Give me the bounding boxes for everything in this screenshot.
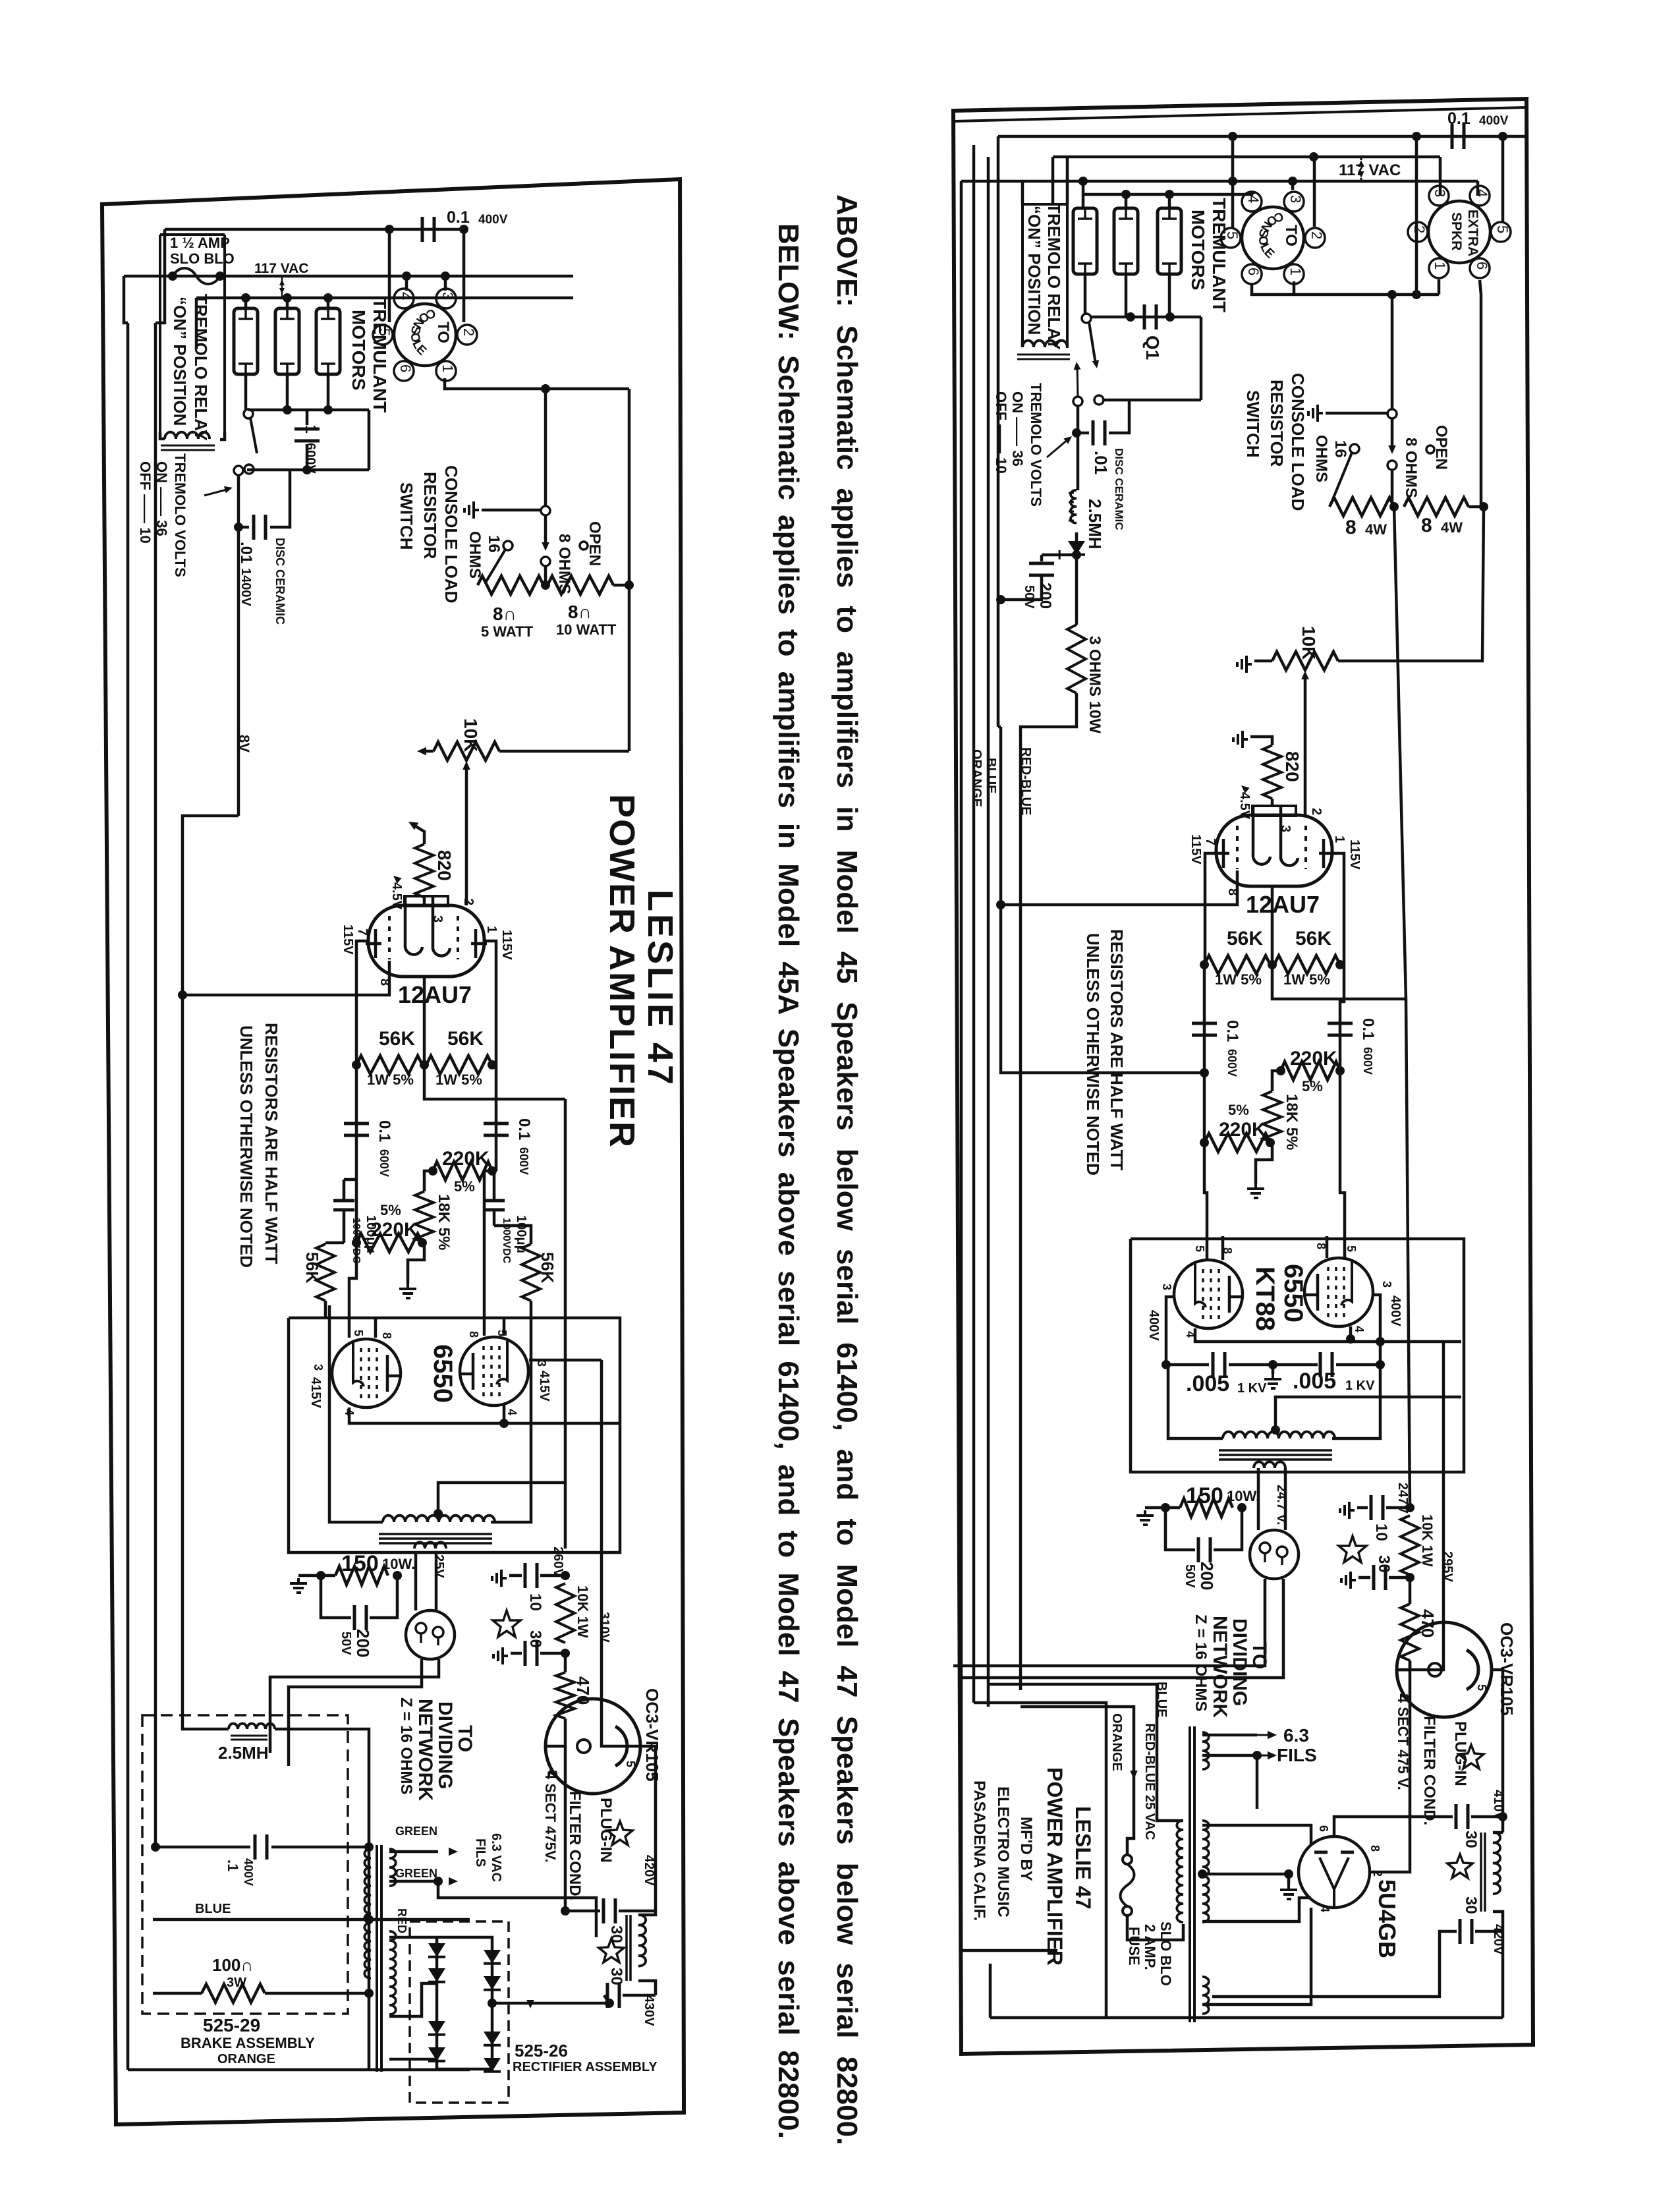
svg-text:8∩: 8∩	[493, 604, 517, 624]
junction	[605, 1999, 614, 2008]
svg-text:0.1: 0.1	[447, 208, 470, 227]
svg-text:56K: 56K	[302, 1252, 322, 1284]
wire	[511, 1652, 522, 1655]
svg-text:415V: 415V	[537, 1371, 551, 1402]
junction	[352, 1060, 361, 1069]
wire pin7 to 56K	[1205, 853, 1214, 965]
wire	[1409, 1578, 1412, 1604]
junction	[1198, 1869, 1207, 1879]
switch arm	[1331, 453, 1352, 504]
junction	[1126, 312, 1135, 322]
wire	[1272, 965, 1406, 999]
wire	[564, 1746, 567, 1911]
svg-text:7: 7	[355, 928, 370, 936]
motor M2	[1114, 208, 1138, 274]
arrowhead	[1130, 1771, 1138, 1779]
resistor 56K	[426, 1056, 492, 1074]
junction	[1162, 1360, 1171, 1369]
svg-text:.005: .005	[1293, 1369, 1336, 1394]
junction	[393, 1571, 402, 1580]
junction	[364, 1842, 374, 1852]
svg-text:TO: TO	[434, 322, 452, 343]
svg-text:ABOVE: Schematic applies to am: ABOVE: Schematic applies to amplifiers i…	[831, 194, 863, 2145]
svg-text:3: 3	[1380, 1281, 1393, 1288]
wire	[1340, 965, 1344, 1071]
switch arm	[250, 418, 257, 453]
svg-text:OHMS: OHMS	[1312, 435, 1330, 482]
star symbol	[1339, 1536, 1366, 1562]
switch arm	[486, 550, 505, 583]
svg-text:600V: 600V	[378, 1149, 391, 1177]
junction	[323, 405, 333, 414]
junction	[1479, 502, 1488, 511]
coil core	[1069, 493, 1074, 521]
svg-text:RED-BLUE: RED-BLUE	[1019, 747, 1033, 815]
svg-text:SLO BLO: SLO BLO	[1158, 1921, 1174, 1986]
resistor 470	[556, 1672, 574, 1719]
junction	[1072, 550, 1081, 559]
svg-text:260V: 260V	[551, 1547, 565, 1578]
wire	[1349, 1326, 1353, 1342]
svg-text:LESLIE 47: LESLIE 47	[1071, 1806, 1095, 1910]
junction	[364, 1915, 374, 1924]
wire	[1391, 470, 1394, 507]
resistor 220K	[356, 1234, 422, 1252]
filter choke coil	[1493, 1833, 1500, 1894]
svg-text:525-26: 525-26	[515, 2041, 568, 2061]
diode	[484, 2058, 501, 2072]
wire	[961, 1949, 1057, 1952]
svg-text:RESISTORS ARE HALF WATT: RESISTORS ARE HALF WATT	[1107, 929, 1127, 1171]
svg-text:GREEN: GREEN	[395, 1867, 437, 1880]
switch contact	[1073, 397, 1082, 406]
svg-text:8∩: 8∩	[568, 602, 592, 622]
resistor 56K	[522, 1244, 540, 1301]
svg-text:310V: 310V	[597, 1612, 611, 1643]
svg-text:56K: 56K	[538, 1252, 557, 1284]
capacitor .005 1KV	[1213, 1352, 1225, 1377]
wire	[306, 410, 309, 425]
arrowhead	[449, 1877, 458, 1886]
svg-text:6: 6	[1317, 1825, 1330, 1832]
arrowhead	[1239, 783, 1250, 793]
wire	[1386, 1506, 1410, 1510]
svg-text:1: 1	[439, 364, 456, 372]
filter condenser OC3-VR105	[546, 1699, 640, 1794]
arrowhead	[1268, 1751, 1277, 1760]
wire	[1358, 1576, 1370, 1579]
junction	[1498, 132, 1507, 141]
junction	[996, 900, 1005, 909]
wire	[1066, 157, 1069, 204]
plug to dividing network	[406, 1610, 455, 1659]
svg-text:3: 3	[1432, 189, 1448, 197]
wire	[1214, 1508, 1242, 1550]
junction	[1200, 1138, 1209, 1147]
switch contact	[1387, 461, 1397, 470]
wire bottom bus	[990, 2016, 1503, 2020]
junction	[1228, 132, 1237, 141]
capacitor 100uu 1000VDC	[333, 1201, 354, 1210]
resistor 220K	[1281, 1062, 1340, 1080]
wire	[275, 1729, 369, 1847]
wire center tap	[1275, 1397, 1461, 1430]
svg-text:50V: 50V	[1022, 585, 1036, 609]
wire	[509, 1574, 522, 1578]
svg-text:2: 2	[461, 898, 476, 905]
filter choke core	[627, 1915, 630, 1981]
arrowhead	[391, 873, 402, 884]
svg-text:RED-BLUE 25 VAC: RED-BLUE 25 VAC	[1142, 1723, 1157, 1840]
junction	[1405, 1573, 1414, 1582]
ground	[464, 501, 479, 519]
wire pin1 to 56K	[1334, 853, 1344, 965]
wire	[482, 509, 541, 512]
svg-text:RESISTORS ARE HALF WATT: RESISTORS ARE HALF WATT	[262, 1023, 281, 1265]
wire	[565, 1910, 600, 1913]
wire	[623, 1994, 656, 1997]
svg-text:0.1: 0.1	[376, 1120, 393, 1142]
junction	[241, 293, 250, 302]
wire 295V drop	[1397, 1342, 1443, 1670]
arrowhead	[1301, 671, 1309, 679]
wire BLUE	[153, 1918, 470, 1921]
wire	[1391, 418, 1394, 450]
tube 12AU7	[1214, 806, 1335, 886]
svg-text:220K: 220K	[442, 1148, 490, 1170]
wire	[1001, 727, 1204, 1073]
svg-text:5: 5	[1475, 1684, 1488, 1691]
svg-text:.01: .01	[1091, 451, 1111, 474]
arrowhead	[1092, 360, 1101, 369]
wire	[1501, 1817, 1505, 1833]
wire	[437, 2068, 492, 2071]
svg-text:2.5MH: 2.5MH	[218, 1743, 269, 1763]
wire	[244, 298, 248, 308]
junction	[1121, 190, 1131, 199]
relay box TREMOLO RELAY	[1022, 204, 1067, 348]
svg-text:ON —— 36: ON —— 36	[1009, 391, 1026, 467]
wire grid feed	[1340, 1071, 1345, 1258]
wire cap lead	[1077, 432, 1089, 435]
wire pin4 bus	[349, 1407, 620, 1423]
svg-text:400V: 400V	[1146, 1310, 1161, 1341]
junction	[1268, 960, 1277, 969]
junction	[561, 1906, 570, 1916]
resistor 18K 5%	[1263, 1091, 1281, 1143]
svg-text:200: 200	[1036, 583, 1054, 609]
junction	[459, 225, 468, 234]
svg-text:5: 5	[376, 328, 393, 336]
ground	[1280, 1885, 1297, 1899]
coil 2.5MH	[229, 1724, 275, 1729]
svg-text:8: 8	[1421, 515, 1432, 536]
resistor 10K pot	[434, 742, 499, 760]
svg-text:3: 3	[1160, 1284, 1173, 1290]
svg-text:0.1: 0.1	[1447, 109, 1470, 128]
capacitor 200 50V	[1029, 563, 1054, 575]
filter choke core	[1481, 1833, 1485, 1912]
resistor 3 OHMS 10W	[1067, 625, 1086, 693]
svg-text:BRAKE ASSEMBLY: BRAKE ASSEMBLY	[181, 2035, 315, 2051]
junction	[1376, 1337, 1385, 1346]
star symbol	[493, 1610, 520, 1637]
svg-text:6550: 6550	[428, 1344, 457, 1403]
wire contact stub	[1077, 364, 1078, 397]
wire	[1202, 1734, 1257, 1737]
wire RED-BLUE run	[1021, 1707, 1134, 1855]
wire	[544, 515, 547, 547]
wire	[1475, 1930, 1503, 1933]
star symbol	[1459, 1745, 1484, 1769]
wire	[604, 1995, 609, 2003]
junction	[488, 1060, 497, 1069]
tube 6550 left	[1174, 1260, 1244, 1328]
svg-text:SWITCH: SWITCH	[1243, 390, 1263, 458]
wire console pin1 out	[1293, 281, 1296, 295]
wire	[640, 1746, 656, 1911]
svg-text:TO: TO	[1248, 1642, 1270, 1669]
svg-text:.01: .01	[237, 542, 255, 563]
motor M3	[1158, 208, 1181, 274]
junction	[1228, 177, 1237, 186]
svg-text:POWER AMPLIFIER: POWER AMPLIFIER	[602, 794, 642, 1149]
wire to console pin5	[388, 229, 391, 322]
arrowhead	[449, 1848, 458, 1856]
svg-text:“ON” POSITION: “ON” POSITION	[1024, 206, 1044, 335]
svg-text:OFF —— 10: OFF —— 10	[137, 461, 154, 544]
wire	[1168, 1365, 1223, 1438]
svg-text:8: 8	[1345, 517, 1357, 538]
svg-text:3: 3	[1287, 195, 1304, 203]
junction	[1346, 1334, 1355, 1344]
svg-text:30: 30	[1462, 1831, 1480, 1848]
wire	[374, 1318, 378, 1338]
junction	[178, 990, 187, 1000]
svg-text:1400V: 1400V	[238, 568, 253, 606]
junction	[1266, 1138, 1275, 1147]
switch pivot	[244, 409, 253, 418]
connector TO CONSOLE	[1221, 192, 1325, 284]
junction	[215, 271, 225, 281]
junction	[1412, 290, 1421, 299]
capacitor 0.1 400V	[1452, 124, 1464, 149]
wire	[544, 566, 547, 585]
wire	[1166, 1363, 1209, 1367]
switch contact	[1094, 395, 1104, 405]
svg-text:4: 4	[1353, 1326, 1366, 1332]
wire	[484, 1171, 492, 1336]
output transformer core	[379, 1534, 492, 1543]
ground	[1237, 656, 1252, 673]
svg-text:UNLESS OTHERWISE NOTED: UNLESS OTHERWISE NOTED	[1083, 933, 1103, 1176]
capacitor .01 disc ceramic	[1093, 420, 1105, 445]
wire	[1304, 737, 1307, 815]
wire	[389, 2058, 437, 2061]
wire	[1326, 412, 1387, 415]
wire	[327, 298, 330, 308]
junction	[1078, 177, 1088, 186]
wire	[1501, 1931, 1505, 2018]
junction	[1387, 290, 1397, 299]
wire	[1221, 1236, 1225, 1260]
svg-text:30: 30	[1375, 1555, 1393, 1573]
coil	[414, 1542, 446, 1549]
power transformer primary	[364, 1849, 371, 1978]
svg-text:DIVIDING: DIVIDING	[434, 1701, 456, 1789]
svg-text:200: 200	[353, 1629, 373, 1657]
wire bus B3	[961, 180, 1478, 183]
star symbol	[599, 1939, 624, 1962]
svg-text:30: 30	[526, 1630, 544, 1648]
svg-text:2 AMP.: 2 AMP.	[1142, 1924, 1158, 1970]
wire	[638, 1911, 656, 1915]
wire	[494, 1226, 531, 1244]
svg-text:10K: 10K	[1299, 626, 1319, 660]
wire ORANGE	[128, 2068, 470, 2072]
svg-text:56K: 56K	[379, 1028, 415, 1050]
power transformer 6.3V winding	[389, 1849, 396, 1886]
wire	[265, 1992, 369, 1995]
svg-text:2: 2	[461, 328, 477, 336]
svg-text:117 VAC: 117 VAC	[254, 261, 309, 276]
wire	[1165, 1508, 1195, 1550]
wire	[529, 1359, 602, 1362]
svg-text:2: 2	[1308, 231, 1325, 239]
wire	[286, 374, 289, 410]
wire	[638, 1981, 656, 1995]
wire	[546, 1719, 565, 1746]
fuse 1.5 AMP SLO BLO	[173, 268, 220, 284]
wire	[1410, 1815, 1453, 1819]
tube 5U4GB	[1299, 1836, 1370, 1908]
svg-text:3: 3	[312, 1364, 325, 1371]
junction	[364, 1989, 374, 1998]
wire	[1336, 1363, 1380, 1367]
wire BLUE run	[988, 1684, 1183, 1821]
svg-text:1W 5%: 1W 5%	[367, 1071, 414, 1088]
resistor 820	[1263, 745, 1281, 799]
dashed box 525-29 BRAKE ASSEMBLY	[142, 1715, 348, 2014]
junction	[323, 293, 333, 302]
resistor 56K	[1274, 955, 1340, 974]
arrowhead	[279, 288, 285, 294]
wire	[438, 1881, 596, 1937]
junction	[1376, 1360, 1385, 1369]
wire	[1202, 1908, 1311, 2004]
wire to console pin4	[405, 276, 408, 291]
wire	[424, 1065, 565, 1099]
resistor 10K 1W	[1401, 1516, 1419, 1575]
star symbol	[1447, 1854, 1472, 1878]
svg-text:TREMOLO RELAY: TREMOLO RELAY	[191, 294, 211, 441]
capacitor Q1	[1144, 304, 1156, 329]
wire to extra-spkr pin4	[1476, 181, 1480, 196]
svg-text:10K 1W: 10K 1W	[574, 1585, 591, 1638]
wire	[344, 1178, 356, 1181]
connector EXTRA SPKR	[1408, 186, 1511, 278]
svg-text:1: 1	[484, 926, 499, 933]
svg-text:5: 5	[1193, 1245, 1206, 1252]
junction	[1237, 1503, 1246, 1512]
wire	[1493, 1831, 1503, 1834]
svg-text:150: 150	[1186, 1483, 1223, 1508]
svg-text:LESLIE 47: LESLIE 47	[640, 890, 680, 1087]
switch contact 16 OHMS	[1350, 444, 1359, 453]
junction	[996, 595, 1005, 604]
svg-text:.005: .005	[1186, 1371, 1229, 1396]
wire	[356, 941, 369, 1065]
svg-text:10: 10	[526, 1593, 544, 1611]
wire	[435, 1552, 438, 1610]
relay coil	[165, 432, 210, 439]
svg-text:10W.: 10W.	[382, 1556, 415, 1572]
diode	[428, 1943, 445, 1957]
svg-text:600V: 600V	[1361, 1047, 1374, 1075]
svg-text:5: 5	[352, 1330, 365, 1336]
switch contact	[244, 465, 254, 474]
relay coil	[1022, 341, 1067, 347]
resistor 18K 5%	[415, 1191, 434, 1243]
svg-text:RECTIFIER ASSEMBLY: RECTIFIER ASSEMBLY	[513, 2060, 658, 2074]
arrowhead	[1268, 1731, 1277, 1740]
wire wiper	[465, 768, 468, 832]
coil	[1254, 1462, 1285, 1468]
svg-text:4: 4	[1245, 195, 1262, 203]
switch terminal	[1387, 409, 1397, 418]
svg-text:30: 30	[1462, 1896, 1480, 1914]
svg-text:150: 150	[341, 1551, 379, 1576]
power transformer primary	[1177, 1821, 1183, 1922]
wire	[1200, 317, 1203, 400]
diode	[484, 2032, 501, 2045]
wire RED-BLUE run	[1021, 693, 1077, 1690]
wire	[1493, 1912, 1503, 1931]
resistor 150 10W	[335, 1566, 388, 1585]
svg-text:MF'D BY: MF'D BY	[1017, 1817, 1035, 1881]
svg-text:56K: 56K	[1295, 928, 1331, 950]
wire	[389, 1850, 438, 1854]
junction	[283, 293, 292, 302]
wire motor bus	[1083, 193, 1253, 196]
svg-text:430V: 430V	[642, 1995, 656, 2026]
svg-text:8 OHMS: 8 OHMS	[1402, 438, 1420, 498]
svg-text:NETWORK: NETWORK	[414, 1699, 436, 1801]
wire	[1332, 1365, 1380, 1438]
wire long bus	[182, 816, 238, 1724]
svg-text:220K: 220K	[1290, 1048, 1337, 1069]
svg-text:5%: 5%	[454, 1178, 475, 1195]
svg-text:TREMOLO VOLTS: TREMOLO VOLTS	[1028, 383, 1044, 507]
wire bus	[154, 323, 157, 1847]
junction	[488, 1999, 497, 2008]
svg-text:1 ½ AMP: 1 ½ AMP	[170, 235, 230, 251]
ground	[1233, 731, 1248, 748]
svg-text:5: 5	[1494, 225, 1511, 233]
wire	[465, 832, 468, 905]
svg-text:12AU7: 12AU7	[1246, 891, 1320, 918]
wire	[1480, 295, 1483, 507]
ground	[290, 1578, 307, 1593]
wire	[220, 432, 225, 440]
wire	[325, 1241, 344, 1245]
power transformer core	[377, 1845, 381, 2072]
wire bus B1	[998, 135, 1526, 138]
wire	[1051, 157, 1055, 204]
svg-text:TO: TO	[1282, 225, 1300, 246]
svg-text:.1: .1	[225, 1860, 241, 1871]
svg-text:OC3-VR105: OC3-VR105	[642, 1688, 662, 1782]
